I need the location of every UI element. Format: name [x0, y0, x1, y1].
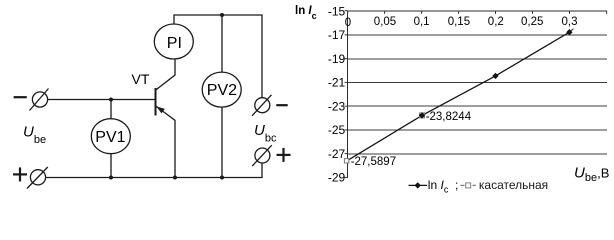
transistor Q1 base bar: [155, 88, 157, 116]
svg-text:-21: -21: [328, 76, 346, 90]
svg-text:VT: VT: [132, 71, 150, 87]
svg-text:-29: -29: [328, 171, 346, 185]
legend ln Ic diamond marker: [415, 182, 421, 188]
junction bottom rail / emitter: [173, 176, 177, 180]
svg-text:0,15: 0,15: [448, 16, 470, 28]
wire emitter (VT emitter to bottom rail): [156, 106, 175, 178]
wire base (from Ube minus terminal to VT base): [48, 99, 156, 101]
svg-text:0,25: 0,25: [521, 16, 543, 28]
svg-text:касательная: касательная: [479, 178, 548, 192]
wire top rail: [174, 15, 262, 98]
voltmeter PV2 body: [202, 72, 241, 107]
svg-text:Ube: Ube: [23, 124, 46, 147]
y-axis tick marks: [345, 11, 348, 178]
svg-text:-27: -27: [328, 147, 346, 161]
svg-text:0,2: 0,2: [488, 16, 504, 28]
minus sign (Ube): [14, 96, 27, 98]
svg-text:PI: PI: [167, 35, 182, 52]
tangent marker square at x=0.1: [420, 113, 425, 118]
svg-text:-19: -19: [328, 52, 346, 66]
emitter arrow of transistor VT: [156, 106, 165, 113]
junction base wire / PV1: [109, 98, 113, 102]
plus sign (Ubc): [277, 148, 291, 162]
terminal X4 (Ubc plus): [252, 145, 272, 166]
gridline -17: [348, 35, 607, 36]
wire PV2 top branch: [221, 15, 223, 72]
svg-text:0,05: 0,05: [374, 16, 396, 28]
svg-text:;: ;: [455, 178, 458, 192]
svg-text:ln Ic: ln Ic: [295, 5, 317, 21]
wire PV2 bottom branch: [221, 107, 223, 177]
x tick labels: [345, 16, 578, 29]
gridline -23: [348, 106, 607, 107]
junction top rail / PV2: [220, 13, 224, 17]
legend tangent line sample (dashed grey): [461, 184, 477, 186]
y tick labels: [328, 4, 346, 184]
wire PV1 bottom branch: [110, 154, 112, 178]
svg-text:0,3: 0,3: [562, 16, 578, 28]
x-axis line (top): [347, 11, 607, 12]
minus sign (Ubc): [276, 104, 287, 106]
data series polyline ln Ic: [348, 32, 570, 160]
svg-text:-27,5897: -27,5897: [351, 156, 396, 168]
ammeter PI body: [154, 24, 193, 59]
legend tangent square marker: [466, 183, 471, 188]
wire bottom rail: [46, 163, 262, 177]
tangent series line (grey, under data): [569, 29, 573, 33]
svg-text:Ube,В: Ube,В: [574, 165, 609, 184]
svg-text:Ubc: Ubc: [254, 122, 277, 145]
gridline -25: [348, 130, 607, 131]
gridline -21: [348, 82, 607, 83]
gridline -19: [348, 59, 607, 60]
terminal X2 (Ube plus): [27, 167, 48, 189]
gridline -27: [348, 154, 607, 155]
tangent marker square at x=0: [344, 159, 348, 163]
svg-text:PV1: PV1: [95, 129, 125, 146]
data marker diamond at x=0.1: [419, 112, 425, 118]
voltmeter PV1 body: [91, 119, 130, 154]
svg-text:PV2: PV2: [207, 82, 237, 99]
svg-text:0,1: 0,1: [414, 16, 430, 28]
data marker diamond at x=0.2: [492, 73, 498, 79]
terminal X3 (Ubc minus): [252, 95, 272, 116]
svg-text:-25: -25: [328, 123, 346, 137]
x-axis tick marks: [348, 11, 607, 14]
svg-text:0: 0: [345, 17, 351, 29]
junction bottom rail / PV1: [109, 176, 113, 180]
svg-text:ln Ic: ln Ic: [428, 178, 449, 194]
svg-text:-23,8244: -23,8244: [426, 111, 472, 123]
y-axis line: [347, 11, 348, 178]
svg-text:-15: -15: [328, 4, 346, 18]
wire PV1 top branch: [110, 100, 112, 119]
data marker diamond at x=0.3: [566, 29, 572, 35]
wire collector (PI to VT collector): [156, 59, 175, 90]
svg-text:-23: -23: [328, 100, 346, 114]
plus sign (Ube): [13, 167, 27, 181]
legend ln Ic line sample: [409, 184, 428, 186]
junction bottom rail / PV2: [220, 176, 224, 180]
svg-text:-17: -17: [328, 28, 346, 42]
terminal X1 (Ube minus): [30, 89, 49, 111]
